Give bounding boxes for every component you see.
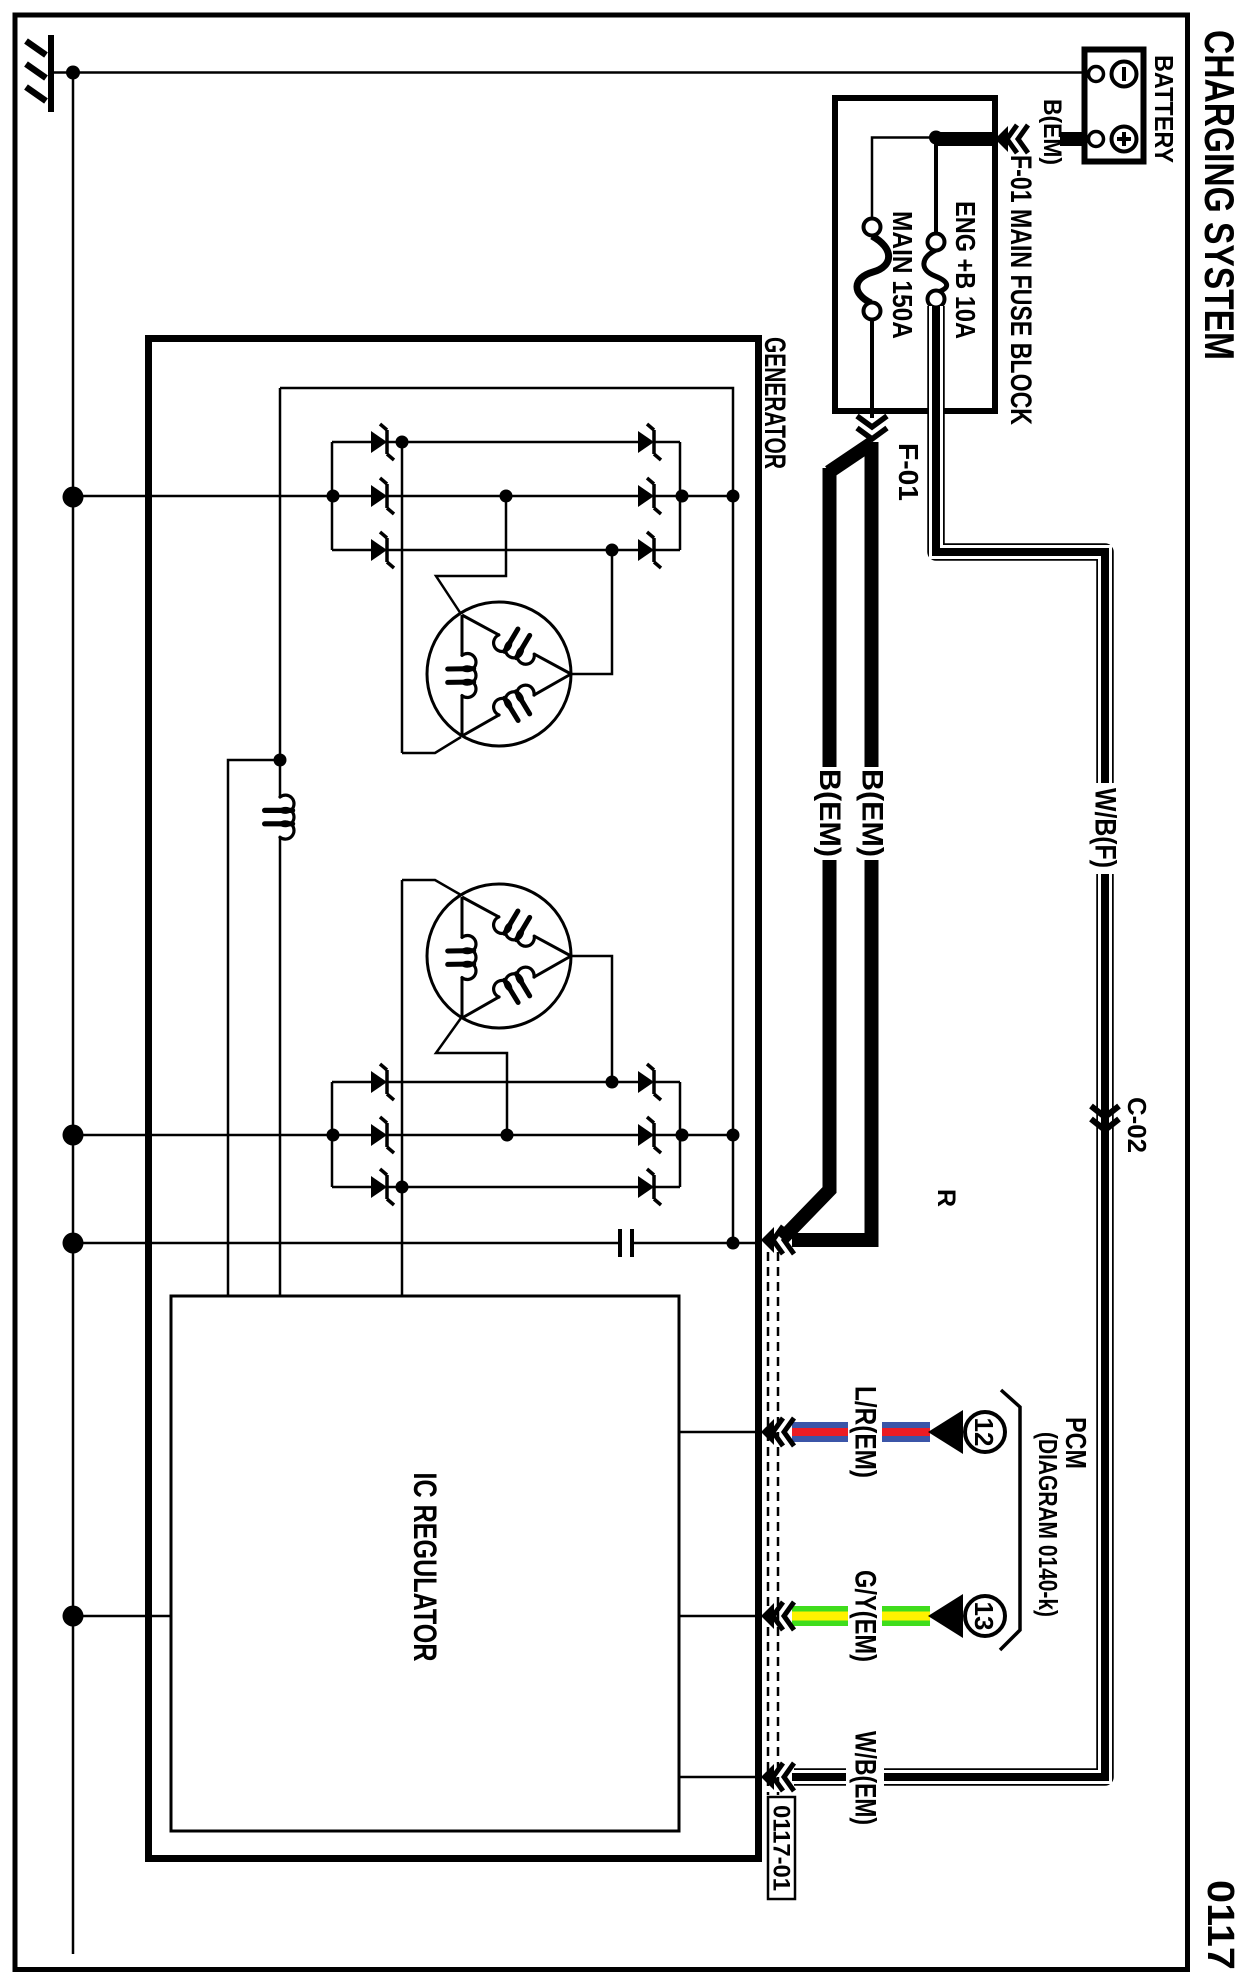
wire field branch to IC regulator: [228, 760, 280, 1296]
rectifier 2 lower diode 2: [371, 1124, 387, 1146]
svg-text:13: 13: [969, 1602, 999, 1631]
node B+ rectifier 1: [727, 490, 740, 503]
rectifier 1 lower rail: [331, 442, 334, 550]
wire IC regulator ground: [73, 1615, 171, 1618]
node ground junction: [66, 66, 80, 80]
svg-text:IC REGULATOR: IC REGULATOR: [407, 1473, 443, 1662]
rectifier 2 lower rail: [331, 1082, 334, 1187]
rectifier 1 lower diode 1: [371, 431, 387, 453]
generator box: [149, 339, 759, 1859]
connector chevron G/Y into generator: [784, 1602, 794, 1630]
rectifier 2 lower diode 3: [371, 1176, 387, 1198]
wire battery negative to ground bus: [73, 71, 1082, 74]
node ground bus / rectifier 2: [63, 1125, 84, 1146]
pin 12: [965, 1412, 1005, 1452]
node ground bus / capacitor: [63, 1233, 84, 1254]
wire IC regulator to L/R chevron: [679, 1431, 758, 1434]
svg-text:G/Y(EM): G/Y(EM): [849, 1570, 882, 1662]
pin 13: [965, 1596, 1005, 1636]
rectifier 1 phase column 2: [332, 495, 371, 498]
wire B terminal drop: [634, 1242, 759, 1245]
svg-text:W/B(EM): W/B(EM): [849, 1731, 882, 1825]
rectifier 1 upper diode 2: [638, 485, 654, 507]
rectifier 1 lower diode 2: [371, 485, 387, 507]
stator winding 2 delta: [427, 884, 571, 1028]
connector chevron into fuse block: [1018, 125, 1028, 153]
wire phase U1 tap: [401, 442, 404, 753]
wire L/R(EM) red stripe: [882, 1428, 930, 1436]
connector chevron generator B terminal: [784, 1226, 794, 1254]
node ground bus / IC regulator: [63, 1606, 84, 1627]
rectifier 2 phase column 2: [332, 1134, 371, 1137]
rectifier 2 ground column: [73, 1134, 332, 1137]
harness dashed line upper: [777, 1252, 780, 1795]
wire B(EM) battery positive: [1060, 132, 1085, 146]
node rectifier 1 lower rail junction: [327, 490, 340, 503]
wire phase V1 tap: [436, 496, 506, 614]
wire IC regulator to W/B chevron: [679, 1776, 758, 1779]
wire G/Y(EM) yellow stripe: [882, 1612, 930, 1621]
rectifier 1 upper diode 1: [638, 431, 654, 453]
wire phase W2 tap: [571, 956, 612, 1082]
svg-text:(DIAGRAM 0140-k): (DIAGRAM 0140-k): [1033, 1432, 1063, 1617]
fuse block F-01: [835, 98, 995, 411]
rectifier 2 B+ column: [680, 1134, 733, 1137]
node phase V2: [501, 1129, 514, 1142]
arrow to PCM pin 13: [928, 1594, 963, 1638]
wire G/Y(EM) green: [882, 1606, 930, 1626]
svg-text:0117-01: 0117-01: [768, 1805, 795, 1891]
rectifier 2 upper diode 2: [638, 1124, 654, 1146]
harness dashed line lower: [767, 1252, 770, 1795]
wire B(EM) upper: [865, 442, 879, 767]
rectifier 2 phase column 3: [332, 1186, 371, 1189]
svg-text:B(EM): B(EM): [856, 769, 889, 857]
wire field supply: [279, 388, 282, 797]
rectifier 1 upper rail: [679, 442, 682, 550]
wire L/R(EM) blue: [882, 1422, 930, 1442]
svg-text:W/B(F): W/B(F): [1089, 788, 1122, 868]
node rectifier 2 lower rail junction: [327, 1129, 340, 1142]
wire phase U2 tap to IC regulator: [401, 880, 404, 1296]
rectifier 1 B+ column: [680, 495, 733, 498]
node fuse block feed junction: [929, 131, 943, 145]
svg-text:B(EM): B(EM): [813, 769, 846, 857]
connector chevron W/B into generator: [784, 1763, 794, 1791]
node B+ capacitor junction: [727, 1237, 740, 1250]
svg-text:12: 12: [969, 1418, 999, 1447]
rectifier 1 upper diode 3: [638, 539, 654, 561]
node rectifier 2 upper rail junction: [676, 1129, 689, 1142]
svg-text:B(EM): B(EM): [1038, 99, 1066, 165]
wire phase V2 tap: [436, 1018, 507, 1135]
wire IC regulator to G/Y chevron: [679, 1615, 758, 1618]
arrow to PCM pin 12: [928, 1410, 963, 1454]
connector chevron L/R into generator: [784, 1418, 794, 1446]
label W/B(EM): [846, 1766, 884, 1788]
label W/B(F): [1094, 783, 1116, 874]
node field branch: [274, 754, 287, 767]
IC regulator box: [171, 1296, 679, 1831]
svg-text:ENG +B 10A: ENG +B 10A: [950, 201, 981, 339]
node phase W2: [606, 1076, 619, 1089]
svg-text:GENERATOR: GENERATOR: [758, 337, 791, 469]
svg-text:CHARGING SYSTEM: CHARGING SYSTEM: [1196, 30, 1240, 360]
battery: [1085, 50, 1144, 162]
node ground bus / rectifier 1: [63, 487, 84, 508]
rectifier 1 phase column 1: [332, 441, 371, 444]
rectifier 1 phase column 3: [332, 549, 371, 552]
rectifier 2 upper diode 3: [638, 1176, 654, 1198]
rectifier 2 lower diode 1: [371, 1071, 387, 1093]
rectifier 2 upper diode 1: [638, 1071, 654, 1093]
svg-text:R: R: [932, 1189, 960, 1207]
svg-text:L/R(EM): L/R(EM): [849, 1386, 882, 1478]
wire B+ rail: [280, 388, 733, 1243]
wire feed to ENG fuse: [934, 144, 938, 233]
wire phase W1 tap: [571, 550, 612, 674]
fuse ENG +B 10A: [924, 250, 947, 292]
wire fuse block feed: [936, 132, 994, 146]
svg-text:MAIN 150A: MAIN 150A: [887, 211, 918, 339]
fuse MAIN 150A: [857, 236, 889, 303]
node phase U1: [396, 436, 409, 449]
node rectifier 1 upper rail junction: [676, 490, 689, 503]
wire B(EM) lower: [829, 443, 872, 472]
rectifier 1 lower diode 3: [371, 539, 387, 561]
capacitor: [630, 1229, 634, 1257]
wire feed to MAIN fuse: [872, 138, 936, 219]
svg-text:F-01 MAIN FUSE BLOCK: F-01 MAIN FUSE BLOCK: [1004, 155, 1037, 425]
wire W/B(F) core: [936, 306, 1105, 783]
rectifier 2 upper rail: [679, 1082, 682, 1187]
svg-text:BATTERY: BATTERY: [1149, 55, 1179, 163]
connector chevron F-01: [857, 416, 887, 427]
node phase V1: [500, 490, 513, 503]
node B+ rectifier 2: [727, 1129, 740, 1142]
wire W/B(F) outline: [794, 306, 1105, 1777]
field coil: [280, 795, 294, 839]
stator winding 1 delta: [427, 602, 571, 746]
node phase W1: [606, 544, 619, 557]
wire MAIN fuse output: [870, 319, 874, 418]
connector 0117-01: [768, 1797, 795, 1899]
svg-text:F-01: F-01: [893, 443, 924, 501]
svg-text:C-02: C-02: [1122, 1097, 1152, 1153]
ground symbol: [53, 71, 73, 74]
rectifier 1 ground column: [73, 495, 332, 498]
PCM bracket: [1000, 1390, 1020, 1650]
rectifier 2 phase column 1: [332, 1081, 371, 1084]
node phase U2: [396, 1181, 409, 1194]
connector C-02 chevrons: [1091, 1106, 1119, 1117]
ground bus wire: [72, 73, 75, 1955]
svg-text:0117: 0117: [1199, 1880, 1240, 1970]
